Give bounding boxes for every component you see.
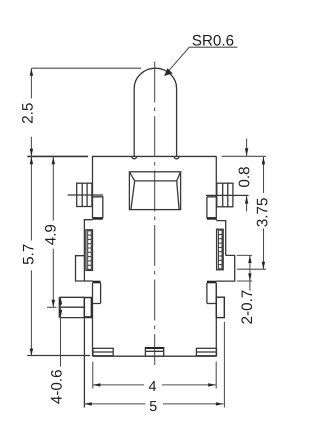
- bottom pad center: [145, 348, 163, 356]
- body left edge: [92, 156, 94, 218]
- top-right extension line: [222, 155, 266, 157]
- dim 4-0.6 label: [51, 370, 62, 404]
- left step-out lug: [76, 256, 93, 281]
- terminal T1 grid box top-left: [77, 183, 92, 206]
- right bent terminal end (thick): [216, 297, 224, 317]
- left terminal vertical end (thick): [84, 298, 91, 317]
- centerline: [154, 62, 156, 366]
- dim 4 label: [149, 381, 156, 391]
- step block right (bold bottom): [207, 197, 216, 219]
- left side hatched contact: [86, 230, 93, 271]
- terminal T2 centerline crossing: [206, 194, 249, 196]
- bottom pad left: [93, 348, 113, 355]
- dim 5 label: [150, 401, 157, 411]
- step block left (bold bottom): [93, 197, 103, 219]
- dim 2.5: [30, 68, 142, 156]
- dim 4-0.6 leader: [59, 297, 62, 367]
- left lower body edge: [92, 304, 94, 357]
- dim 5 right extension: [223, 322, 225, 408]
- inner pusher trapezoid: [129, 172, 180, 210]
- dim 0.8: [245, 139, 248, 212]
- dim 4.9 extension tick: [47, 306, 57, 308]
- dim 3.75 label: [257, 198, 268, 226]
- right side hatched contact: [217, 229, 224, 270]
- body right edge upper: [215, 156, 217, 220]
- dim 5: [84, 402, 223, 405]
- right profile step: [216, 221, 225, 256]
- body bottom edge with left extension line: [27, 355, 216, 358]
- right extension lines: [237, 255, 266, 281]
- plunger dome SR0.6: [134, 68, 176, 156]
- right lower block (bold top): [207, 282, 216, 304]
- dim 2.5 label: [22, 103, 33, 123]
- dim 0.8 label: [239, 167, 250, 187]
- dim 5.7: [30, 157, 33, 357]
- bottom pad right: [196, 348, 216, 355]
- left outer edge + 5 dim extension: [83, 318, 85, 408]
- left bent terminal channel: [59, 297, 92, 317]
- stem base bump left: [132, 156, 137, 159]
- terminal T1 centerline crossing: [68, 194, 104, 196]
- dim 4: [93, 383, 216, 386]
- stem base bump right: [174, 156, 179, 159]
- right step-out lug: [216, 255, 234, 281]
- dim 4.9 label: [45, 225, 56, 245]
- leader SR0.6 label: [192, 35, 233, 46]
- left profile step: [84, 220, 92, 282]
- left lower block (bold top): [93, 282, 101, 304]
- dim 4 extension lines: [93, 362, 216, 389]
- dim 3.75: [262, 157, 265, 269]
- terminal T2 grid box top-right: [217, 183, 233, 207]
- dim 2-0.7 label: [241, 291, 252, 324]
- body top edge with left extension line: [27, 155, 216, 157]
- dim 2-0.7: [248, 255, 251, 290]
- right lower body edge: [215, 283, 217, 356]
- dim 5.7 label: [23, 245, 34, 265]
- leader SR0.6: [164, 47, 237, 76]
- dim 4.9: [52, 157, 55, 308]
